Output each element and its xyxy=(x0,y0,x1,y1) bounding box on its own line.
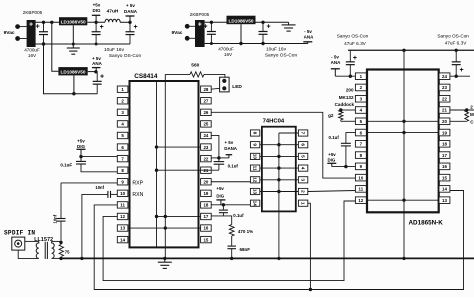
svg-text:19: 19 xyxy=(203,191,208,196)
bridge rectifier BR1 2KBP005 xyxy=(27,20,36,47)
svg-text:16V: 16V xyxy=(224,52,233,57)
wire U2 output to +5v ANA node xyxy=(88,71,96,73)
node busA pin17 row xyxy=(155,215,158,218)
svg-text:- 5v: - 5v xyxy=(331,55,339,60)
svg-text:16: 16 xyxy=(203,226,208,231)
wire busB to resistor 560 xyxy=(165,73,190,75)
wire J1 shield to T1 primary bottom xyxy=(18,250,39,258)
AD1865 pin 7 xyxy=(355,141,366,148)
svg-text:+5v: +5v xyxy=(328,152,336,157)
wire L1 to +5v DANA node xyxy=(120,21,130,23)
wire to CS8414 pin 7 xyxy=(81,156,117,158)
ground symbol under CS8414 xyxy=(158,258,172,268)
CS8414 pin 25 xyxy=(201,121,212,127)
node RXN return on rail xyxy=(80,257,83,260)
svg-text:6: 6 xyxy=(301,143,306,146)
AD1865 pin 22 xyxy=(439,95,450,102)
74HC04 pin 5 xyxy=(298,153,307,159)
svg-text:26: 26 xyxy=(203,110,208,115)
CS8414 pin 1 xyxy=(117,86,128,92)
AD1865 pin 11 xyxy=(355,186,366,193)
terminal 9Vac-1a xyxy=(15,24,26,29)
AD1865 pin 5 xyxy=(355,118,366,125)
svg-text:13: 13 xyxy=(442,198,447,203)
node +5v DIG xyxy=(94,21,97,24)
AD1865 pin 13 xyxy=(439,197,450,204)
node C14 top rail xyxy=(455,49,458,52)
AD1865 pin 18 xyxy=(439,141,450,148)
svg-text:560: 560 xyxy=(191,63,199,69)
svg-text:15: 15 xyxy=(442,175,447,180)
wire AD1865 pin6-pin19 row xyxy=(366,132,439,134)
svg-text:4700uF: 4700uF xyxy=(218,46,234,51)
transformer T1 secondary xyxy=(52,241,55,258)
74HC04 pin 9 xyxy=(250,142,259,148)
svg-text:12: 12 xyxy=(358,198,363,203)
regulator U1 LD1086V50 xyxy=(59,17,87,25)
node AD bus row12 xyxy=(402,198,405,201)
svg-text:DIG: DIG xyxy=(216,193,224,198)
svg-text:+: + xyxy=(134,24,138,31)
node pin1 junction bottom xyxy=(309,288,312,291)
svg-text:+: + xyxy=(460,67,464,74)
svg-text:+: + xyxy=(353,55,357,62)
svg-text:22: 22 xyxy=(203,156,208,161)
node U3 gnd xyxy=(239,42,242,45)
inductor L1 47uH xyxy=(105,19,120,22)
wire bridge2 + to regulator U3 xyxy=(205,21,227,23)
svg-text:24: 24 xyxy=(442,74,447,79)
svg-text:15: 15 xyxy=(203,237,208,242)
wire 74HC04 row 3 through xyxy=(260,155,299,157)
74HC04 pin 7 xyxy=(298,130,307,136)
svg-text:74HC04: 74HC04 xyxy=(263,119,285,125)
capacitor C8 10nf on RXN xyxy=(82,191,117,259)
power tap +5v ANA xyxy=(92,68,101,72)
capacitor C11 0.1uf DIG xyxy=(219,205,228,216)
capacitor C7 10nf coupling xyxy=(57,183,66,243)
svg-text:+: + xyxy=(100,24,104,31)
CS8414 pin 24 xyxy=(201,132,212,138)
node pin4 resistor top xyxy=(339,108,342,111)
wire AD1865 pin21 xyxy=(450,109,474,111)
svg-text:DIG: DIG xyxy=(77,144,86,149)
IC U6 AD1865N-K body xyxy=(367,70,439,213)
node 74HC04 bus row 5 xyxy=(277,178,280,181)
CS8414 pin 6 xyxy=(117,144,128,150)
svg-text:M: M xyxy=(470,112,474,117)
svg-text:75: 75 xyxy=(65,250,70,255)
74HC04 pin 13 xyxy=(250,188,259,194)
wire CS8414 pin26 to AD1865 pin10 (top seg) xyxy=(211,112,355,178)
svg-text:+: + xyxy=(267,24,271,31)
wire AD1865 pin12-pin13 row xyxy=(366,199,439,201)
node filter chain on rail xyxy=(230,257,233,260)
svg-text:10: 10 xyxy=(120,191,125,196)
CS8414 pin 19 xyxy=(201,190,212,196)
svg-text:10: 10 xyxy=(358,175,363,180)
74HC04 pin 2 xyxy=(298,188,307,194)
transformer T1 primary xyxy=(36,241,39,258)
wire bridge1 + output to regulator U1 xyxy=(36,21,59,23)
wire pin17 row internal xyxy=(157,215,201,217)
74HC04 pin 6 xyxy=(298,142,307,148)
capacitor C5 4700uF 16V xyxy=(204,22,216,43)
wire 74HC04 pin1 to bottom bus xyxy=(308,203,311,289)
svg-text:DIG: DIG xyxy=(92,8,101,13)
svg-text:18: 18 xyxy=(203,203,208,208)
svg-text:5: 5 xyxy=(301,155,306,158)
svg-text:200: 200 xyxy=(346,87,354,92)
node 74HC04 bus row 2 xyxy=(277,143,280,146)
svg-text:2: 2 xyxy=(301,190,306,193)
svg-text:RXN: RXN xyxy=(132,192,143,198)
capacitor C14 47uF right xyxy=(452,50,464,76)
node 74HC04 bus row 4 xyxy=(277,166,280,169)
wire AD1865 pin4 stub xyxy=(341,109,356,111)
wire U1 gnd pin xyxy=(72,25,74,44)
wire J1 to T1 primary top xyxy=(25,240,39,242)
svg-text:C: C xyxy=(470,120,474,125)
svg-text:12: 12 xyxy=(253,177,258,183)
svg-text:LD1086V50: LD1086V50 xyxy=(228,18,253,23)
74HC04 pin 3 xyxy=(298,177,307,183)
AD1865 pin 16 xyxy=(439,163,450,170)
svg-text:+ 5v: + 5v xyxy=(126,3,135,8)
svg-text:20: 20 xyxy=(442,119,447,124)
AD1865 pin 14 xyxy=(439,186,450,193)
svg-text:Sanyo OS-Con: Sanyo OS-Con xyxy=(265,52,298,58)
wire AD1865 pin24 xyxy=(450,75,470,77)
CS8414 pin 12 xyxy=(117,213,128,219)
svg-text:14: 14 xyxy=(120,237,125,242)
capacitor C13 47uF left xyxy=(346,50,357,76)
svg-text:10uF 16v: 10uF 16v xyxy=(266,46,287,52)
node +5v DANA decoupling xyxy=(217,156,220,159)
svg-text:DIG: DIG xyxy=(328,158,336,163)
power tap +5v DIG (74HC04) xyxy=(216,200,225,205)
svg-text:0.1uF: 0.1uF xyxy=(60,162,72,167)
resistor R2 560 xyxy=(190,72,204,77)
CS8414 pin 5 xyxy=(117,132,128,138)
node 74HC04 bus on rail xyxy=(277,257,280,260)
svg-text:28: 28 xyxy=(203,87,208,92)
svg-text:16: 16 xyxy=(442,164,447,169)
wire pin23 row internal xyxy=(157,146,201,148)
svg-text:+ 5v: + 5v xyxy=(225,140,234,145)
power tap +5v DANA (CS8414) xyxy=(226,155,233,158)
74HC04 pin 1 xyxy=(298,200,307,206)
AD1865 pin 3 xyxy=(355,95,366,102)
IC U5 74HC04 body xyxy=(262,127,296,212)
resistor R5 200 MK132 xyxy=(465,110,469,121)
wire U2 gnd pin xyxy=(73,75,75,93)
power tap +5v DIG xyxy=(92,15,101,22)
svg-text:47uF 6.3V: 47uF 6.3V xyxy=(445,41,468,46)
regulator U2 LD1086V50 xyxy=(58,67,87,75)
svg-text:21: 21 xyxy=(442,108,447,113)
node C2 bottom on rail xyxy=(95,43,98,46)
svg-text:18: 18 xyxy=(442,142,447,147)
wire R5 to pin20 xyxy=(450,120,467,122)
node +5v DIG feed xyxy=(222,203,225,206)
CS8414 pin 23 xyxy=(201,144,212,150)
74HC04 pin 4 xyxy=(298,165,307,171)
svg-text:11: 11 xyxy=(359,187,364,192)
svg-text:Caddock: Caddock xyxy=(335,102,355,107)
capacitor C9 0.1uF xyxy=(76,157,117,172)
node T1 bottom on ground rail xyxy=(59,257,62,260)
wire CS8414 pin18 to 74HC04 pin14 xyxy=(211,204,250,206)
ground symbol supply1 xyxy=(67,44,80,54)
wire AD1865 internal bus xyxy=(403,50,405,258)
AD1865 pin 20 xyxy=(439,118,450,125)
node C1 bottom xyxy=(42,42,45,45)
wire U3 output xyxy=(256,21,289,23)
wire CS8414 pin28 to LED xyxy=(211,87,219,90)
capacitor C10 0.1uf DANA xyxy=(214,158,225,170)
svg-text:47uF 6.3V: 47uF 6.3V xyxy=(344,41,367,46)
node 10uF top xyxy=(261,21,264,24)
wire 74HC04 internal bus xyxy=(278,133,280,258)
node bridge2 out / C5 xyxy=(210,21,213,24)
node busB pin17 row xyxy=(164,215,167,218)
svg-text:2KBP005: 2KBP005 xyxy=(190,12,210,17)
node 74HC04 bus row 3 xyxy=(277,155,280,158)
svg-text:AD1865N-K: AD1865N-K xyxy=(409,220,444,227)
svg-text:23: 23 xyxy=(442,85,447,90)
svg-text:ANA: ANA xyxy=(92,61,102,66)
svg-text:Sanyo OS-Con: Sanyo OS-Con xyxy=(437,33,469,38)
node +5v ANA xyxy=(94,70,97,73)
AD1865 pin 10 xyxy=(355,174,366,181)
svg-text:24: 24 xyxy=(203,133,208,138)
svg-text:14: 14 xyxy=(442,187,447,192)
CS8414 pin 2 xyxy=(117,98,128,104)
svg-text:1: 1 xyxy=(301,202,306,205)
AD1865 pin 23 xyxy=(439,84,450,91)
CS8414 pin 7 xyxy=(117,155,128,161)
svg-text:8: 8 xyxy=(253,132,258,135)
IC U4 CS8414 body xyxy=(130,81,199,247)
CS8414 pin 27 xyxy=(201,98,212,104)
svg-text:4700uF: 4700uF xyxy=(24,47,40,52)
svg-text:+5v: +5v xyxy=(93,2,101,7)
svg-text:68nF: 68nF xyxy=(240,247,251,252)
AD1865 pin 9 xyxy=(355,163,366,170)
wire RXP line to CS8414 pin 9 xyxy=(61,182,117,184)
wire CS8414 pin17 FILT xyxy=(211,216,232,225)
node C14 bottom xyxy=(455,75,458,78)
terminal 9Vac-2b xyxy=(185,36,195,41)
svg-text:16V: 16V xyxy=(28,53,37,58)
wire 74HC04 row 4 through xyxy=(260,167,299,169)
svg-text:10nf: 10nf xyxy=(95,185,104,190)
node +5v DANA xyxy=(128,21,131,24)
svg-text:RXP: RXP xyxy=(132,181,143,187)
svg-text:LL1572: LL1572 xyxy=(34,237,53,243)
svg-text:19: 19 xyxy=(442,130,447,135)
wire CS8414 internal bus A xyxy=(156,81,158,247)
power tap +5v DIG (AD1865) xyxy=(327,163,336,166)
svg-text:0.1uf: 0.1uf xyxy=(228,164,239,169)
wire pin21 row internal+cap xyxy=(157,169,219,171)
CS8414 pin 13 xyxy=(117,225,128,231)
node pin7 dot xyxy=(79,155,82,158)
svg-text:4: 4 xyxy=(301,167,306,170)
wire return rail supply1b xyxy=(44,44,98,94)
AD1865 pin 15 xyxy=(439,174,450,181)
AD1865 pin 21 xyxy=(439,107,450,114)
ground symbol supply2 xyxy=(282,22,296,31)
svg-text:27: 27 xyxy=(203,98,208,103)
svg-text:9Vac: 9Vac xyxy=(4,30,15,36)
svg-text:LD1086V50: LD1086V50 xyxy=(60,70,85,75)
svg-text:LED: LED xyxy=(232,84,242,90)
wire pin7 stub xyxy=(279,132,299,134)
node AD bus on rail xyxy=(402,257,405,260)
wire R2 to LED xyxy=(204,74,225,77)
svg-text:+: + xyxy=(198,22,202,29)
resistor R4 200 MK132 xyxy=(339,110,343,120)
svg-text:22: 22 xyxy=(442,96,447,101)
node U1 gnd on rail xyxy=(72,43,75,46)
svg-text:MK132: MK132 xyxy=(339,95,354,100)
CS8414 pin 21 xyxy=(201,167,212,173)
svg-text:10nf: 10nf xyxy=(53,214,58,223)
CS8414 pin 8 xyxy=(117,167,128,173)
CS8414 pin 9 xyxy=(117,179,128,185)
node pin21 resistor xyxy=(465,108,468,111)
svg-text:10: 10 xyxy=(253,154,258,160)
svg-text:9Vac: 9Vac xyxy=(172,30,183,36)
CS8414 pin 14 xyxy=(117,236,128,242)
svg-text:9: 9 xyxy=(253,143,258,146)
svg-text:+5v: +5v xyxy=(216,186,224,191)
node bus B on ground rail xyxy=(163,257,166,260)
bridge rectifier BR2 2KBP005 xyxy=(195,20,205,47)
74HC04 pin 8 xyxy=(250,130,259,136)
svg-text:+5v: +5v xyxy=(77,139,85,144)
wire CS8414 pin12 bottom route to AD1865 pin12 xyxy=(103,201,355,281)
svg-text:g2: g2 xyxy=(328,113,334,118)
svg-text:+: + xyxy=(36,24,40,31)
CS8414 pin 15 xyxy=(201,236,212,242)
wire 74HC04 row 5 through xyxy=(260,179,299,181)
74HC04 pin 11 xyxy=(250,165,259,171)
analog ground rail (top) xyxy=(348,49,474,51)
svg-text:ANA: ANA xyxy=(331,60,341,65)
node busA pin21 row xyxy=(155,168,158,171)
svg-text:+: + xyxy=(204,23,208,30)
svg-text:0.1uf: 0.1uf xyxy=(329,135,340,140)
svg-text:17: 17 xyxy=(203,214,208,219)
node internal bus top xyxy=(402,49,405,52)
CS8414 pin 20 xyxy=(201,179,212,185)
node AD bus row5 xyxy=(402,120,405,123)
svg-text:13: 13 xyxy=(253,189,258,195)
svg-text:47uH: 47uH xyxy=(107,9,119,15)
svg-text:11: 11 xyxy=(120,203,125,208)
capacitor C2 10uF OS-Con xyxy=(92,22,104,44)
node C13 bottom xyxy=(349,75,352,78)
wire 74HC04 pin2 to AD1865 pin11 xyxy=(308,191,356,192)
wire bridge2 - rail to -5v ANA xyxy=(205,43,308,45)
wire raw to U2 input xyxy=(52,22,59,71)
power tap +5v DIG (CS8414 pin7) xyxy=(77,149,86,156)
wire U1 output to +5v DIG node xyxy=(87,21,105,23)
capacitor C1 4700uF 16V xyxy=(36,22,48,44)
AD1865 pin 2 xyxy=(355,84,366,91)
74HC04 pin 14 xyxy=(250,200,259,206)
svg-text:7: 7 xyxy=(301,132,306,135)
CS8414 pin 22 xyxy=(201,155,212,161)
wire node to DANA tap xyxy=(219,157,229,159)
svg-text:2: 2 xyxy=(470,105,473,110)
wire +5vDIG to AD1865 pin9 xyxy=(332,166,356,168)
svg-text:Sanyo OS-Con: Sanyo OS-Con xyxy=(337,34,369,39)
node T1 top xyxy=(59,241,62,244)
CS8414 pin 17 xyxy=(201,213,212,219)
node 74HC04 bus row 6 xyxy=(277,190,280,193)
wire T1 secondary bottom to rail xyxy=(52,257,61,259)
wire T1 secondary top to node xyxy=(52,240,61,242)
node bridge1 out / C1 xyxy=(42,21,45,24)
CS8414 pin 11 xyxy=(117,202,128,208)
svg-text:ANA: ANA xyxy=(304,34,314,39)
wire bridge1 - to ground rail xyxy=(36,43,130,45)
terminal 9Vac-2a xyxy=(185,24,195,29)
wire 74HC04 row 6 through xyxy=(260,191,299,193)
wire pin13 to pin16 row internal xyxy=(128,227,201,229)
AD1865 pin 4 xyxy=(355,107,366,114)
svg-text:+: + xyxy=(29,22,33,29)
wire CS8414 internal bus B / gnd xyxy=(164,74,166,258)
CS8414 pin 16 xyxy=(201,225,212,231)
svg-text:470 1%: 470 1% xyxy=(238,229,253,234)
power tap -5v ANA (AD1865) xyxy=(331,69,340,76)
svg-text:17: 17 xyxy=(442,153,447,158)
wire CS8414 pin22 to node xyxy=(211,157,219,159)
AD1865 pin 1 xyxy=(355,73,366,80)
AD1865 pin 19 xyxy=(439,129,450,136)
AD1865 pin 12 xyxy=(355,197,366,204)
wire CS8414 pin11 bottom route to AD1865 pin14 xyxy=(94,191,463,290)
resistor R3 470 1% xyxy=(229,225,234,237)
svg-text:SPDIF IN: SPDIF IN xyxy=(4,229,35,236)
wire R4 to pin5 xyxy=(341,120,356,122)
capacitor C4 10uF OS-Con ANA xyxy=(93,72,104,94)
svg-text:LD1086V50: LD1086V50 xyxy=(61,20,86,25)
terminal 9Vac-1b xyxy=(15,36,26,41)
connector J1 RCA xyxy=(12,237,25,250)
svg-text:20: 20 xyxy=(203,179,208,184)
74HC04 pin 10 xyxy=(250,153,259,159)
CS8414 pin 26 xyxy=(201,109,212,115)
svg-text:CS8414: CS8414 xyxy=(134,73,158,80)
CS8414 pin 10 xyxy=(117,190,128,196)
svg-text:0.1uf: 0.1uf xyxy=(233,213,244,218)
wire CS8414 pin20 to 74HC04 pin12 xyxy=(211,181,250,183)
svg-text:3: 3 xyxy=(301,178,306,181)
node U2 gnd on return rail xyxy=(72,92,75,95)
node C6 bottom xyxy=(261,42,264,45)
power tap +5v DANA xyxy=(126,16,135,22)
AD1865 pin 24 xyxy=(439,73,450,80)
svg-text:2KBP005: 2KBP005 xyxy=(23,10,43,15)
node busA pin23 row xyxy=(155,145,158,148)
svg-text:10uF 16v: 10uF 16v xyxy=(104,47,125,53)
